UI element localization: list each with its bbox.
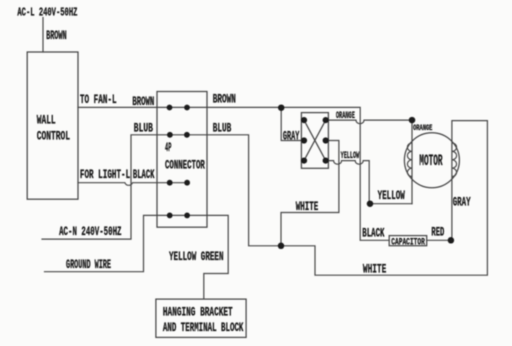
switch pin mid-left: [301, 137, 307, 143]
connector pin 3L: [167, 180, 173, 186]
svg-text:GRAY: GRAY: [283, 129, 299, 144]
svg-text:BROWN: BROWN: [132, 94, 154, 109]
junction dot orange at motor: [409, 117, 416, 124]
wire black for light: [78, 183, 187, 186]
motor M1 circle: [404, 133, 459, 188]
motor right winding coil: [452, 143, 457, 177]
connector pin 3R: [184, 180, 190, 186]
svg-text:YELLOW GREEN: YELLOW GREEN: [169, 249, 224, 264]
svg-text:TO FAN-L: TO FAN-L: [80, 92, 117, 107]
svg-text:ORANGE: ORANGE: [336, 111, 355, 122]
junction dot yellow: [367, 200, 374, 207]
svg-text:BLACK: BLACK: [133, 167, 155, 182]
svg-text:CONTROL: CONTROL: [37, 128, 70, 143]
svg-text:YELLOW: YELLOW: [378, 188, 405, 203]
box capacitor: [389, 236, 427, 246]
wire motor left lead vertical: [411, 120, 413, 204]
svg-text:AND TERMINAL BLOCK: AND TERMINAL BLOCK: [163, 320, 244, 335]
svg-text:WHITE: WHITE: [296, 199, 319, 214]
junction dot red/gray: [448, 237, 455, 244]
box reversing switch: [301, 113, 328, 169]
connector pin 1L: [167, 105, 173, 111]
wire red capacitor to gray junction: [427, 239, 451, 241]
svg-text:GRAY: GRAY: [453, 195, 471, 210]
switch pin bot-right: [323, 158, 329, 164]
motor left winding coil: [407, 143, 412, 177]
wire gray link from brown junction to switch: [281, 108, 304, 141]
connector pin 1R: [184, 105, 190, 111]
svg-text:FOR LIGHT-L: FOR LIGHT-L: [80, 167, 130, 182]
box 4P connector: [157, 92, 207, 228]
connector pin 2R: [184, 132, 190, 138]
junction dot brown/gray: [278, 104, 285, 111]
connector pin 4L: [167, 213, 173, 219]
svg-text:BROWN: BROWN: [213, 92, 236, 107]
switch pin top-left: [301, 117, 307, 123]
wire yellow horizontal to motor: [370, 203, 412, 205]
svg-text:CAPACITOR: CAPACITOR: [391, 237, 425, 248]
svg-text:AC-N 240V-50HZ: AC-N 240V-50HZ: [59, 224, 122, 239]
svg-text:YELLOW: YELLOW: [341, 151, 360, 162]
wire white from switch middle: [281, 141, 339, 246]
wire brown main (L): [78, 107, 389, 240]
wire neutral blue/white/gray loop: [42, 121, 487, 276]
svg-text:CONNECTOR: CONNECTOR: [165, 158, 205, 173]
svg-text:HANGING BRACKET: HANGING BRACKET: [163, 305, 233, 320]
svg-text:GROUND WIRE: GROUND WIRE: [66, 257, 111, 272]
svg-text:AC-L 240V-50HZ: AC-L 240V-50HZ: [17, 7, 77, 20]
switch X diagonal 2: [304, 120, 326, 161]
switch pin top-right: [323, 117, 329, 123]
svg-text:WALL: WALL: [37, 113, 56, 128]
svg-text:BLUB: BLUB: [134, 121, 153, 136]
svg-text:MOTOR: MOTOR: [419, 152, 443, 170]
box hanging bracket: [156, 299, 246, 337]
switch pin bot-left: [301, 158, 307, 164]
wire orange from switch to motor: [326, 120, 412, 124]
wire yellow from switch bottom: [326, 161, 370, 204]
wire yellow-green ground: [45, 215, 229, 298]
svg-text:BROWN: BROWN: [46, 28, 67, 43]
svg-text:WHITE: WHITE: [363, 262, 387, 277]
junction dot white/blue: [278, 243, 285, 250]
box wall control: [27, 52, 78, 199]
switch X diagonal 1: [304, 120, 326, 161]
switch pin mid-right: [323, 137, 329, 143]
svg-text:ORANGE: ORANGE: [413, 123, 432, 133]
svg-text:BLACK: BLACK: [362, 226, 384, 241]
connector pin 2L: [167, 132, 173, 138]
svg-text:RED: RED: [431, 225, 444, 240]
svg-text:4P: 4P: [165, 140, 171, 155]
svg-text:BLUB: BLUB: [213, 120, 232, 135]
connector pin 4R: [184, 213, 190, 219]
wire AC-L lead: [42, 18, 44, 53]
